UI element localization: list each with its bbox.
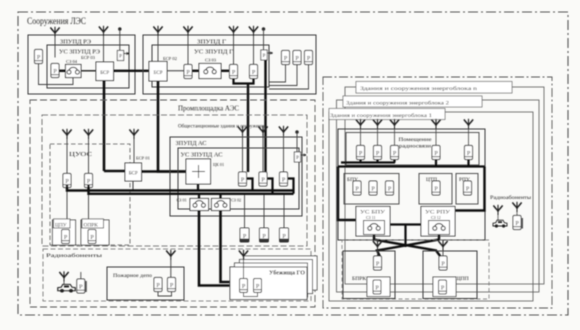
thick wire P to C3 04 bbox=[59, 70, 66, 72]
dashed frame bottom units bbox=[342, 240, 489, 299]
block БСР 01 bbox=[125, 163, 142, 181]
hook wire P as3 to bus bbox=[288, 179, 294, 194]
portable P subscriber bbox=[77, 279, 85, 293]
box Помещение радиосвязи bbox=[346, 133, 479, 166]
svg-text:БСР: БСР bbox=[129, 172, 138, 177]
thick X cable US RPU to BPRK bbox=[377, 235, 439, 257]
svg-text:БСР: БСР bbox=[100, 71, 109, 76]
wire C3 04 to BSR bbox=[81, 70, 96, 72]
radio P bprk top bbox=[374, 256, 382, 270]
box ЦУОС (dashed) bbox=[50, 144, 130, 245]
antenna room5 bbox=[464, 119, 473, 129]
inner unit BPRK bbox=[367, 277, 390, 297]
svg-text:УС ЗПУПД АС: УС ЗПУПД АС bbox=[181, 152, 223, 159]
speaker with arrow AS bbox=[294, 152, 306, 162]
radio P2 bbox=[230, 65, 238, 79]
box ЦПУ bbox=[53, 220, 76, 245]
hook wire P as2 to bus bbox=[268, 179, 273, 194]
svg-text:ЦК 01: ЦК 01 bbox=[213, 162, 224, 167]
loudspeaker line with dot bbox=[119, 28, 122, 31]
radio P fire2 bbox=[168, 278, 176, 292]
box УС ЗПУПД Г bbox=[152, 45, 269, 87]
block БСР 03 bbox=[96, 62, 114, 81]
box энергоблок 1 bbox=[329, 112, 533, 301]
box ОПРК bbox=[81, 220, 109, 245]
antenna B bbox=[99, 26, 108, 36]
svg-text:УС ЗПУПД Г: УС ЗПУПД Г bbox=[194, 49, 233, 56]
radio P1 bbox=[184, 65, 192, 79]
thick wire C3 03 to P2 bbox=[221, 70, 229, 72]
svg-text:БПРК: БПРК bbox=[352, 276, 366, 282]
right column outer box bbox=[323, 77, 552, 308]
wire down to lower P row 1 bbox=[244, 195, 246, 228]
box энергоблок 2 bbox=[337, 100, 540, 292]
antenna room2 bbox=[373, 119, 382, 129]
radio P shelter2 bbox=[254, 279, 262, 293]
radio P fire1 bbox=[154, 278, 162, 292]
wire cuos P2 to OPRK bbox=[88, 188, 90, 221]
svg-text:ЦПУ: ЦПУ bbox=[55, 223, 67, 229]
thick drop bus to SZ02 bbox=[219, 194, 221, 199]
box БПРК bbox=[343, 251, 395, 299]
wires from three P boxes stepping left bbox=[269, 65, 286, 83]
radio P as3 bbox=[280, 172, 288, 186]
antenna room3 bbox=[390, 119, 399, 129]
svg-text:ЩПП: ЩПП bbox=[455, 276, 469, 282]
svg-text:Здания и сооружения энергоблок: Здания и сооружения энергоблока 1 bbox=[330, 112, 433, 119]
svg-text:СЗ 11: СЗ 11 bbox=[366, 215, 376, 220]
svg-text:БСР 03: БСР 03 bbox=[81, 55, 96, 60]
box ЗПУПД Г bbox=[143, 35, 316, 94]
shelters stack back2 bbox=[240, 260, 313, 294]
thick bus line 1 bbox=[67, 185, 294, 191]
shelters stack back1 bbox=[235, 263, 308, 297]
svg-text:Радиоабоненты: Радиоабоненты bbox=[46, 252, 103, 259]
thick cable BSR01 to CK01 bbox=[142, 170, 187, 173]
wire cuos P1 to CPU bbox=[66, 188, 68, 221]
box ЩПП bbox=[423, 251, 477, 299]
thick link between US boxes bbox=[390, 225, 421, 248]
antenna over BSR01 bbox=[129, 129, 138, 139]
box ЗПУПД АС bbox=[170, 137, 302, 216]
junction box СЗ 03 bbox=[199, 64, 221, 79]
loudspeaker dot line bbox=[262, 28, 265, 31]
svg-text:СЗ 03: СЗ 03 bbox=[205, 58, 217, 63]
loudspeaker dot line AS bbox=[296, 131, 299, 134]
thick X cable US BPU to SCHPP bbox=[374, 235, 441, 257]
wire between shelter P boxes bbox=[244, 293, 258, 297]
antenna over P1 bbox=[183, 26, 192, 36]
portable P subscriber right bbox=[513, 216, 521, 230]
speaker unit with arrow bbox=[117, 51, 129, 61]
svg-text:Общестанционные здания и соору: Общестанционные здания и сооружения bbox=[178, 123, 266, 130]
thick wire P1 to C3 03 bbox=[192, 70, 199, 72]
svg-text:ЗПУПД Г: ЗПУПД Г bbox=[197, 39, 226, 46]
station CK 01 (+) bbox=[186, 159, 211, 184]
antenna CUOS 1 bbox=[62, 129, 71, 139]
box УС РПУ bbox=[421, 207, 455, 237]
antenna over P2 bbox=[229, 26, 238, 36]
box УС ЗПУПД АС bbox=[178, 148, 299, 209]
thick cable SZ01 to shelters bbox=[199, 211, 240, 286]
car radio subscriber bbox=[58, 284, 76, 292]
radio P cuos2 bbox=[85, 174, 93, 188]
antenna over P3 bbox=[249, 26, 258, 36]
svg-text:ЗПУПД РЭ: ЗПУПД РЭ bbox=[60, 39, 91, 46]
radio P box (in US RE) bbox=[51, 64, 59, 78]
antenna SCHPP bbox=[438, 240, 447, 250]
box Общестанционные здания (dashed) bbox=[42, 115, 307, 246]
thick cable SZ02 to shelters bbox=[221, 211, 240, 283]
bottom strip dashed box bbox=[43, 249, 311, 301]
svg-text:Промплощадка АЭС: Промплощадка АЭС bbox=[178, 104, 239, 113]
svg-text:радиосвязи: радиосвязи bbox=[399, 145, 432, 150]
box Убежища ГО front bbox=[230, 267, 307, 300]
car subscriber right bbox=[493, 220, 507, 227]
radio P shelter1 bbox=[240, 279, 248, 293]
wire between fire P boxes bbox=[158, 292, 172, 297]
radio P in CPU bbox=[62, 230, 70, 244]
svg-text:СЗ 04: СЗ 04 bbox=[66, 59, 78, 64]
svg-text:СЗ 01: СЗ 01 bbox=[177, 198, 187, 203]
inner unit SCHPP bbox=[433, 277, 456, 297]
wire antenna B to BSR bbox=[103, 36, 105, 62]
box энергоблок n bbox=[345, 87, 544, 284]
thick bus A radio room bbox=[341, 160, 395, 163]
wire BSR02 to P1 bbox=[167, 70, 184, 72]
portable radio P g1 bbox=[240, 228, 249, 242]
wire down to lower P row 3 bbox=[283, 195, 285, 228]
wire down to lower P row 2 bbox=[263, 195, 265, 228]
box ЦТП bbox=[419, 174, 452, 205]
portable radio P g3 bbox=[280, 228, 289, 242]
antenna room1 bbox=[356, 119, 365, 129]
box УС ЗПУПД РЭ bbox=[47, 45, 129, 88]
svg-text:Убежища ГО: Убежища ГО bbox=[269, 270, 305, 277]
svg-text:Здания и сооружения энергоблок: Здания и сооружения энергоблока n bbox=[360, 85, 478, 92]
shelters stack back3 bbox=[244, 256, 317, 290]
block БСР 02 bbox=[149, 62, 167, 82]
box Промплощадка АЭС (dashed) bbox=[30, 100, 315, 307]
radio P in OPRK bbox=[88, 230, 96, 244]
svg-text:Сооружения ЛЭС: Сооружения ЛЭС bbox=[27, 16, 86, 26]
thick cable BSR03 down bbox=[103, 81, 106, 172]
thick bus line 2 bbox=[89, 185, 294, 194]
antenna A bbox=[50, 27, 59, 37]
thick cable from G section down to AS (1) bbox=[247, 84, 249, 173]
thick wire P2 down right to P3 bbox=[234, 79, 254, 84]
svg-text:Пожарное депо: Пожарное депо bbox=[113, 273, 152, 279]
svg-text:СЗ 12: СЗ 12 bbox=[431, 215, 441, 220]
antenna shelter bbox=[239, 250, 248, 260]
antenna room4 bbox=[431, 119, 440, 129]
antenna AS1 bbox=[238, 126, 247, 136]
radio P as2 bbox=[259, 172, 267, 186]
thick cable BSR03 to BSR02 bbox=[114, 70, 150, 72]
thick cable BSR02 down to CK01 bbox=[158, 81, 186, 172]
junction box C3 04 bbox=[66, 65, 82, 78]
wire from left P down to SZ04 bbox=[39, 64, 74, 85]
svg-text:Здания и сооружения энергоблок: Здания и сооружения энергоблока 2 bbox=[346, 100, 450, 107]
antenna fire station bbox=[166, 250, 175, 260]
svg-text:Радиоабоненты: Радиоабоненты bbox=[490, 196, 532, 201]
box ЗПУПД РЭ bbox=[28, 35, 135, 94]
thick wire CK01 down to bus bbox=[197, 184, 199, 191]
svg-text:БСР 02: БСР 02 bbox=[163, 56, 178, 61]
radio P as1 bbox=[239, 172, 247, 186]
wire antenna A to P bbox=[54, 37, 56, 58]
inner equipment box bbox=[338, 129, 485, 240]
antenna CUOS 2 bbox=[84, 129, 93, 139]
svg-text:БСР: БСР bbox=[154, 71, 163, 76]
thick cable bus down left to US BPU bbox=[338, 167, 358, 221]
junction box СЗ 01 bbox=[190, 199, 209, 211]
antenna over BSR02 bbox=[153, 26, 162, 36]
antenna AS2 bbox=[258, 126, 267, 136]
radio P schpp top bbox=[439, 256, 447, 270]
svg-text:ЗПУПД АС: ЗПУПД АС bbox=[176, 140, 207, 147]
antenna BPRK bbox=[373, 240, 382, 250]
thick cable BSR03 into BSR01 bbox=[104, 170, 125, 173]
radio P3 bbox=[250, 65, 258, 79]
wall P boxes row of three bbox=[282, 51, 290, 65]
junction box СЗ 02 bbox=[212, 199, 231, 211]
radio P cuos1 bbox=[63, 174, 71, 188]
svg-text:Помещение: Помещение bbox=[399, 138, 432, 143]
svg-text:СЗ 02: СЗ 02 bbox=[231, 198, 241, 203]
thick cable from G section down to AS (2) bbox=[264, 60, 266, 172]
wire antenna to BSR02 bbox=[157, 36, 159, 62]
svg-text:ОПРК: ОПРК bbox=[84, 223, 99, 229]
box РПУ bbox=[456, 174, 478, 205]
portable radio P g2 bbox=[260, 228, 269, 242]
antenna AS3 bbox=[279, 126, 288, 136]
radio P station (outside US box) bbox=[35, 50, 43, 64]
wire BSR01 down to bus bbox=[132, 181, 134, 191]
box Пожарное депо bbox=[107, 267, 184, 300]
speaker unit with arrow bbox=[261, 50, 273, 60]
radio P room boxes bbox=[357, 146, 365, 160]
svg-text:БСР 01: БСР 01 bbox=[136, 156, 151, 161]
box БПУ bbox=[344, 174, 399, 205]
hook wire P as1 to bus bbox=[247, 179, 253, 191]
box УС БПУ bbox=[356, 207, 390, 237]
thick drop bus to SZ01 bbox=[198, 194, 200, 199]
thick cable bus down right to US RPU bbox=[455, 167, 485, 211]
thick bus B radio room bbox=[338, 160, 485, 167]
